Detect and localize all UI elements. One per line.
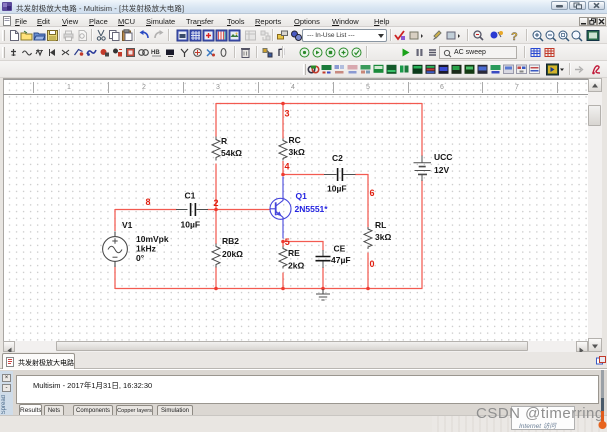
svg-text:54kΩ: 54kΩ: [221, 148, 242, 158]
svg-text:0: 0: [370, 259, 375, 269]
svg-text:6: 6: [370, 188, 375, 198]
svg-text:8: 8: [146, 197, 151, 207]
svg-text:RB2: RB2: [222, 236, 239, 246]
svg-text:12V: 12V: [434, 165, 449, 175]
svg-text:RL: RL: [375, 220, 386, 230]
svg-text:UCC: UCC: [434, 152, 452, 162]
svg-text:20kΩ: 20kΩ: [222, 249, 243, 259]
svg-text:10µF: 10µF: [181, 220, 201, 230]
svg-text:2N5551*: 2N5551*: [295, 204, 329, 214]
svg-text:2: 2: [214, 198, 219, 208]
svg-text:1kHz: 1kHz: [136, 244, 156, 254]
svg-text:3kΩ: 3kΩ: [289, 147, 305, 157]
svg-text:4: 4: [285, 162, 290, 172]
svg-text:C1: C1: [185, 191, 196, 201]
svg-text:Q1: Q1: [296, 191, 308, 201]
svg-text:10mVpk: 10mVpk: [136, 234, 169, 244]
svg-text:3kΩ: 3kΩ: [375, 232, 391, 242]
svg-text:V1: V1: [122, 220, 133, 230]
svg-text:0°: 0°: [136, 253, 145, 263]
svg-text:RC: RC: [289, 135, 301, 145]
svg-text:C2: C2: [332, 153, 343, 163]
svg-text:5: 5: [285, 237, 290, 247]
svg-text:10µF: 10µF: [327, 184, 347, 194]
svg-text:CE: CE: [334, 244, 346, 254]
svg-text:R: R: [221, 136, 227, 146]
svg-text:47µF: 47µF: [331, 255, 351, 265]
svg-text:2kΩ: 2kΩ: [288, 261, 304, 271]
svg-text:3: 3: [285, 109, 290, 119]
svg-text:RE: RE: [288, 248, 300, 258]
